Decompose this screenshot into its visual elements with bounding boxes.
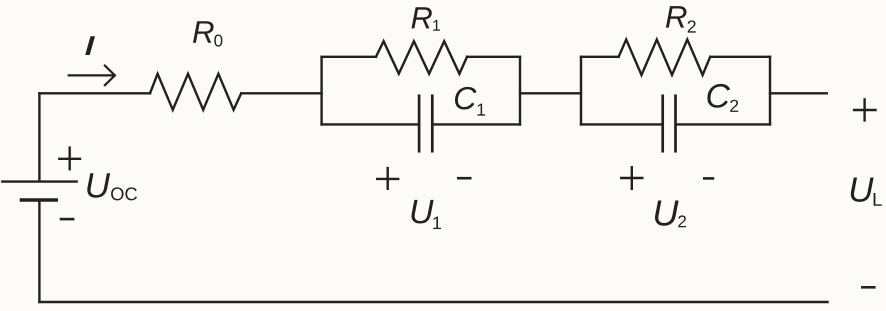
label UOC subscript OC	[111, 187, 137, 200]
label C2	[707, 84, 730, 108]
node block1 left bar	[320, 57, 322, 125]
wire block1 to block2	[520, 92, 581, 94]
label U2 subscript 2	[678, 215, 686, 227]
label C2 subscript 2	[730, 100, 738, 112]
wire block1 top right	[467, 56, 520, 58]
plus sign battery	[58, 146, 81, 170]
label C1 subscript 1	[478, 104, 486, 116]
wire bottom return rail	[39, 301, 827, 303]
label R0 subscript 0	[214, 35, 222, 47]
label R1	[412, 7, 432, 28]
label C1	[455, 87, 477, 110]
label I	[85, 36, 95, 55]
plus sign UL	[853, 98, 877, 122]
node block2 left bar	[580, 57, 582, 125]
plus sign U1	[376, 167, 399, 190]
wire R0 to block1	[241, 92, 321, 94]
capacitor C2	[663, 96, 676, 151]
wire left vertical below battery	[38, 202, 40, 302]
wire block2 bottom right	[677, 123, 770, 125]
wire left vertical from top rail down to battery	[38, 93, 40, 180]
label R1 subscript 1	[433, 20, 440, 31]
label U2	[655, 201, 679, 226]
plus sign U2	[620, 166, 644, 190]
wire block2 top left	[581, 56, 619, 58]
minus sign battery	[60, 218, 75, 221]
battery UOC short plate	[21, 198, 56, 201]
wire block1 bottom left	[322, 123, 418, 125]
current arrow I	[69, 66, 115, 86]
label R2	[666, 6, 687, 28]
resistor R2	[619, 40, 711, 76]
node block2 right bar	[769, 57, 771, 125]
wire output terminal	[770, 92, 827, 94]
minus sign UL	[861, 286, 876, 289]
minus sign U2	[703, 177, 714, 180]
wire top rail left segment	[39, 92, 150, 94]
battery UOC long plate	[2, 180, 76, 182]
resistor R1	[376, 41, 467, 74]
wire block1 top left	[322, 56, 376, 58]
label R0	[193, 21, 214, 43]
wire block2 top right	[710, 56, 770, 58]
label U1	[412, 200, 434, 224]
node block1 right bar	[519, 57, 521, 125]
minus sign U1	[457, 177, 472, 180]
label UOC	[87, 173, 110, 197]
label U1 subscript 1	[433, 217, 441, 229]
capacitor C1	[419, 96, 432, 151]
label UL subscript L	[874, 193, 882, 206]
resistor R0	[150, 74, 241, 110]
wire block1 bottom right	[434, 123, 521, 125]
label R2 subscript 2	[688, 20, 696, 32]
wire block2 bottom left	[581, 123, 662, 125]
label UL	[851, 178, 874, 202]
